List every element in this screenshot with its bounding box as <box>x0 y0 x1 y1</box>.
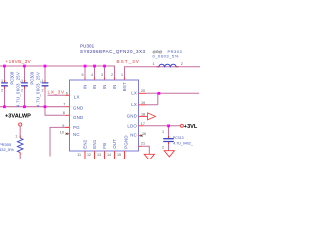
svg-text:4.7U_0402_: 4.7U_0402_ <box>173 141 194 145</box>
svg-text:IN: IN <box>83 85 88 90</box>
svg-text:+19VB_3V: +19VB_3V <box>6 59 32 64</box>
svg-text:BST_3V: BST_3V <box>117 59 140 64</box>
svg-text:+3VL: +3VL <box>184 124 198 130</box>
svg-text:2: 2 <box>1 89 3 93</box>
svg-text:EN1: EN1 <box>92 139 97 148</box>
svg-text:4.7U_0603_25V: 4.7U_0603_25V <box>36 72 41 107</box>
svg-text:OUT: OUT <box>112 139 117 149</box>
svg-text:IN: IN <box>102 85 107 90</box>
svg-text:2: 2 <box>42 89 44 93</box>
svg-text:PGND: PGND <box>123 135 128 149</box>
svg-text:16: 16 <box>142 132 146 136</box>
svg-text:18: 18 <box>141 112 145 116</box>
svg-text:PG: PG <box>73 125 80 130</box>
svg-text:19: 19 <box>141 101 145 105</box>
svg-text:1: 1 <box>42 79 44 83</box>
svg-text:PU301: PU301 <box>80 44 95 49</box>
svg-text:2: 2 <box>111 73 113 77</box>
svg-text:LX: LX <box>131 102 137 107</box>
svg-text:17: 17 <box>141 122 145 126</box>
svg-text:FB: FB <box>102 143 107 149</box>
svg-text:2: 2 <box>21 89 23 93</box>
svg-text:20: 20 <box>141 89 145 93</box>
svg-text:@G@: @G@ <box>153 50 163 54</box>
svg-text:PC309: PC309 <box>30 71 35 84</box>
svg-text:LDO: LDO <box>127 123 137 128</box>
svg-text:2: 2 <box>181 62 183 66</box>
svg-text:1: 1 <box>162 130 164 134</box>
svg-text:6: 6 <box>66 92 68 96</box>
svg-text:4.7U_0603_25V: 4.7U_0603_25V <box>16 72 21 107</box>
svg-text:9: 9 <box>62 124 64 128</box>
svg-text:1: 1 <box>1 79 3 83</box>
svg-text:NC: NC <box>73 132 80 137</box>
svg-text:1: 1 <box>153 62 155 66</box>
svg-text:11: 11 <box>77 153 81 157</box>
svg-text:12: 12 <box>87 153 91 157</box>
svg-text:GND: GND <box>73 106 83 111</box>
svg-text:EN2: EN2 <box>83 139 88 148</box>
svg-text:PC313: PC313 <box>173 136 184 140</box>
svg-text:1: 1 <box>21 79 23 83</box>
svg-text:5: 5 <box>82 73 84 77</box>
svg-text:2: 2 <box>162 145 164 149</box>
svg-text:1: 1 <box>15 135 17 139</box>
svg-text:GND: GND <box>127 113 137 118</box>
svg-text:LX: LX <box>131 91 137 96</box>
svg-text:BST: BST <box>122 82 127 91</box>
svg-text:7: 7 <box>63 102 65 106</box>
svg-text:21: 21 <box>141 142 145 146</box>
svg-text:15: 15 <box>117 153 121 157</box>
svg-text:0_0603_5%: 0_0603_5% <box>153 54 179 59</box>
svg-text:IN: IN <box>92 85 97 90</box>
svg-text:13: 13 <box>97 153 101 157</box>
svg-text:8: 8 <box>63 111 65 115</box>
svg-text:4: 4 <box>91 73 93 77</box>
svg-text:3: 3 <box>101 73 103 77</box>
svg-text:+3VALWP: +3VALWP <box>5 114 31 120</box>
svg-text:14: 14 <box>107 153 111 157</box>
svg-text:1: 1 <box>121 73 123 77</box>
svg-text:LX_3V: LX_3V <box>48 90 66 95</box>
svg-text:IN: IN <box>112 85 117 90</box>
svg-text:GND: GND <box>73 115 83 120</box>
svg-text:SY8286BPAC_QFN20_3X3: SY8286BPAC_QFN20_3X3 <box>80 49 145 54</box>
svg-text:NC: NC <box>130 132 137 137</box>
svg-text:432_5%: 432_5% <box>0 147 14 152</box>
svg-text:PC308: PC308 <box>10 71 15 84</box>
svg-text:LX: LX <box>74 95 80 100</box>
svg-text:10: 10 <box>60 130 64 134</box>
